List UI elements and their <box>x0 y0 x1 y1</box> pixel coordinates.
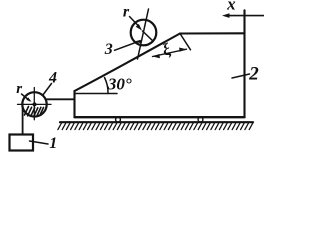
svg-text:2: 2 <box>248 64 259 85</box>
svg-text:r: r <box>16 81 22 97</box>
svg-text:ξ: ξ <box>160 39 173 60</box>
svg-text:3: 3 <box>104 41 113 58</box>
svg-text:r: r <box>123 4 130 21</box>
svg-text:30°: 30° <box>107 74 132 93</box>
svg-text:4: 4 <box>48 69 57 86</box>
svg-text:x: x <box>226 0 236 14</box>
svg-text:1: 1 <box>49 135 57 152</box>
